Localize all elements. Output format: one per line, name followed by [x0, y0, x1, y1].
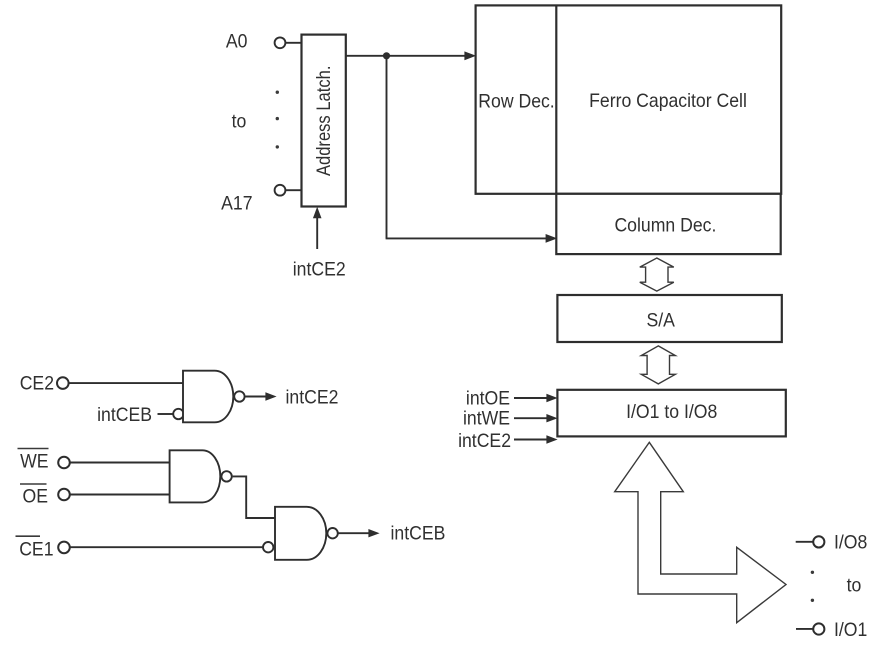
- block S/A: [557, 295, 781, 342]
- svg-text:CE2: CE2: [20, 372, 54, 394]
- block I/O1 to I/O8: [557, 390, 785, 437]
- pin I/O1: [796, 628, 813, 630]
- svg-text:Column Dec.: Column Dec.: [614, 213, 716, 235]
- nand gate U3: [275, 507, 326, 560]
- ellipsis dots between I/O8 and I/O1: [811, 571, 814, 574]
- wire WE to gate U2: [70, 462, 170, 464]
- block Row Dec + Ferro Capacitor Cell outer: [476, 5, 782, 193]
- arrowhead intCEB out: [368, 529, 379, 537]
- svg-text:intCE2: intCE2: [458, 429, 511, 451]
- inverter bubble U3 output: [327, 528, 337, 538]
- big hollow data arrow (up and right): [615, 442, 786, 622]
- wire OE to gate U2: [70, 494, 170, 496]
- wire CE2 to gate U1: [69, 382, 183, 384]
- inverter bubble U2 output: [221, 471, 231, 481]
- svg-text:intCEB: intCEB: [391, 522, 446, 544]
- pin circle CE1: [58, 542, 70, 554]
- svg-text:I/O1: I/O1: [834, 618, 867, 640]
- svg-text:A17: A17: [221, 191, 252, 213]
- svg-text:I/O1 to I/O8: I/O1 to I/O8: [626, 400, 717, 422]
- svg-text:intCE2: intCE2: [293, 257, 346, 279]
- arrowhead intCE2 out: [265, 392, 276, 400]
- wire A0 to Address Latch: [286, 42, 302, 44]
- wire U2 output to U3 input: [233, 476, 275, 518]
- junction dot: [383, 52, 390, 59]
- svg-text:OE: OE: [23, 485, 48, 507]
- wire A17 to Address Latch: [286, 189, 302, 191]
- ellipsis dots between A0 and A17: [276, 91, 279, 94]
- block Column Dec: [556, 194, 780, 254]
- wire junction down: [386, 56, 388, 239]
- wire CE1 to U3 bubble: [70, 546, 262, 548]
- svg-text:Ferro Capacitor Cell: Ferro Capacitor Cell: [589, 89, 747, 111]
- wire U3 output: [338, 532, 369, 534]
- svg-text:intOE: intOE: [466, 387, 510, 409]
- svg-text:I/O8: I/O8: [834, 531, 867, 553]
- block Address Latch: [302, 35, 346, 207]
- pin circle CE2: [57, 377, 69, 389]
- wire U1 output: [246, 396, 267, 398]
- svg-text:WE: WE: [20, 449, 48, 471]
- pin circle A0: [275, 37, 286, 48]
- svg-text:CE1: CE1: [19, 538, 53, 560]
- double arrow S/A to I/O: [641, 346, 675, 384]
- divider Row Dec / Ferro: [555, 5, 557, 193]
- wire intCEB stub: [158, 413, 173, 415]
- nand gate U2: [170, 450, 221, 502]
- nand gate U1: [183, 371, 233, 423]
- pin circle OE: [58, 489, 70, 501]
- svg-text:Row Dec.: Row Dec.: [478, 89, 554, 111]
- pin I/O8: [796, 541, 813, 543]
- inverter bubble U1 output: [234, 391, 244, 401]
- pin circle A17: [275, 185, 286, 196]
- inverter bubble U1 input: [173, 409, 183, 419]
- svg-text:to: to: [847, 574, 862, 596]
- svg-text:intCE2: intCE2: [286, 386, 339, 408]
- svg-text:Address Latch.: Address Latch.: [313, 66, 335, 176]
- svg-text:to: to: [232, 110, 247, 132]
- wire to Column Dec: [386, 237, 547, 239]
- double arrow Column Dec to S/A: [640, 258, 674, 291]
- wire Address Latch output to Row Dec: [346, 55, 466, 57]
- svg-text:intWE: intWE: [463, 407, 510, 429]
- arrowhead into Row Dec: [464, 51, 476, 60]
- svg-text:S/A: S/A: [646, 309, 675, 331]
- arrowhead into Column Dec: [546, 234, 558, 243]
- inverter bubble U3 input: [263, 542, 273, 552]
- pin circle WE: [58, 457, 70, 469]
- signal intCE2 into Address Latch: [316, 216, 318, 249]
- svg-text:A0: A0: [226, 30, 248, 52]
- svg-text:intCEB: intCEB: [97, 403, 152, 425]
